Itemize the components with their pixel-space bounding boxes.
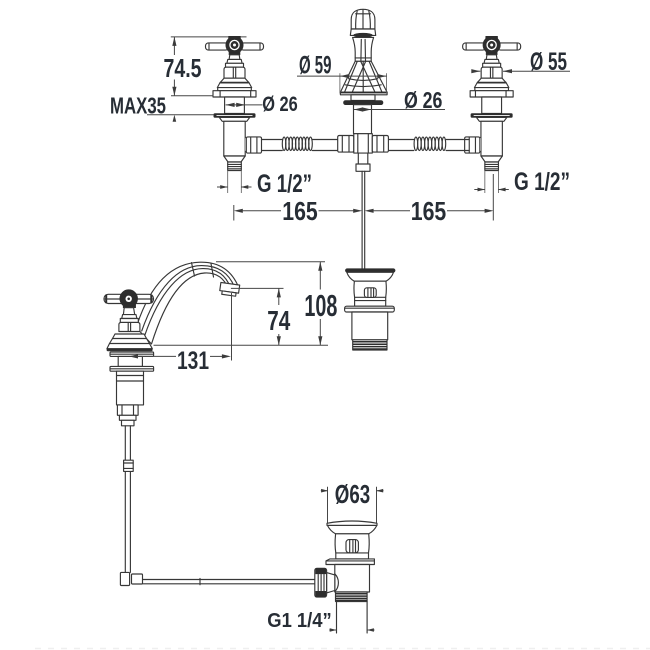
waste flange [345, 306, 395, 312]
svg-text:165: 165 [411, 196, 447, 226]
reference base line [154, 344, 329, 346]
spout base stem [351, 95, 375, 101]
svg-text:MAX35: MAX35 [110, 93, 166, 119]
waste lower body [352, 312, 388, 340]
dimension 74.5 (handle height) [164, 37, 202, 96]
drain body [335, 534, 369, 559]
spout bell cone [340, 58, 387, 92]
dimension 165 left span [234, 196, 362, 226]
dimension 165 right span [365, 174, 494, 226]
rod elbow block [120, 572, 142, 585]
waste thread [353, 340, 387, 350]
dimension D63 [321, 479, 384, 524]
side faucet cross handle [104, 290, 154, 308]
svg-text:Ø 26: Ø 26 [262, 93, 298, 116]
right valve V2 (front view, mirrored) [463, 36, 521, 193]
svg-text:165: 165 [282, 196, 318, 226]
drain lower body with ball joint [335, 565, 370, 593]
tee left nut [338, 136, 354, 153]
drain flare [327, 525, 377, 533]
svg-text:G1 1/4”: G1 1/4” [267, 609, 332, 632]
svg-text:G 1/2”: G 1/2” [257, 170, 312, 198]
dimension 74 [267, 288, 291, 345]
rod joint cone [327, 573, 335, 593]
dimension D59 on spout bell [297, 53, 387, 94]
spout top reference line [216, 261, 325, 263]
outlet reference line [231, 287, 284, 289]
waste overflow slot [364, 288, 376, 298]
top reference line of 74.5 [171, 36, 247, 38]
svg-text:74: 74 [267, 305, 291, 336]
side faucet lower nut [117, 405, 138, 415]
corrugated hose left [282, 137, 312, 150]
waste cap (dark) [345, 269, 395, 273]
dimension D55 on right valve bonnet [471, 48, 570, 76]
svg-text:74.5: 74.5 [164, 53, 202, 83]
pop-up rod upper [362, 171, 365, 269]
dimension 131 [129, 347, 231, 375]
waste body [354, 281, 386, 306]
knurled rod nut [315, 568, 327, 597]
rod union connector [124, 460, 134, 471]
side faucet mounting stem [118, 356, 142, 366]
side faucet bottom washer [110, 366, 154, 371]
waste trumpet [347, 272, 394, 281]
svg-text:G 1/2”: G 1/2” [514, 168, 570, 196]
supply pipe tee to right valve [388, 140, 469, 151]
tee bottom tail [356, 153, 370, 171]
side faucet spout [137, 262, 239, 344]
side faucet base bell [107, 334, 152, 351]
svg-text:Ø63: Ø63 [335, 479, 370, 509]
spout dark flange [344, 101, 384, 105]
side faucet top flange washer [110, 352, 154, 356]
dimension 108 [304, 262, 337, 345]
side faucet aerator [219, 282, 239, 296]
tee body [354, 134, 373, 153]
drain overflow slot [346, 540, 358, 553]
side faucet tail [119, 415, 136, 426]
corrugated hose right [414, 137, 446, 150]
outlet extension line [231, 293, 233, 361]
svg-text:131: 131 [177, 347, 209, 375]
faint crop band at bottom [35, 648, 650, 650]
center spout dome cap [351, 9, 375, 29]
horizontal rod to waste [143, 579, 315, 585]
spout mounting shank D26 [354, 105, 372, 134]
svg-text:Ø 55: Ø 55 [530, 48, 567, 76]
side faucet body [117, 371, 144, 405]
G1/2 dimension right valve tail [474, 168, 570, 196]
dimension D26 on left valve stem [226, 93, 298, 116]
spout cap band [350, 29, 375, 37]
drain thread [336, 592, 368, 602]
dimension D26 on spout shank [354, 87, 445, 113]
drain tail pipe [337, 602, 368, 634]
side faucet bonnet [119, 308, 140, 332]
svg-text:Ø 26: Ø 26 [404, 87, 443, 113]
svg-text:108: 108 [304, 288, 337, 323]
dimension MAX35 (deck thickness) [110, 93, 214, 122]
svg-text:Ø 59: Ø 59 [299, 53, 332, 80]
G1/2 dimension left valve tail [217, 170, 312, 198]
drain flange [326, 559, 374, 565]
supply pipe left valve to tee [262, 140, 338, 151]
tee right nut [372, 136, 388, 153]
pop-up vertical rod [125, 426, 130, 573]
dimension G1 1/4 [267, 609, 374, 632]
spout neck [353, 37, 374, 61]
drain top rim [327, 521, 377, 525]
left valve V1 (front view, cross handle) [206, 36, 264, 193]
spout bell rim [340, 92, 387, 95]
